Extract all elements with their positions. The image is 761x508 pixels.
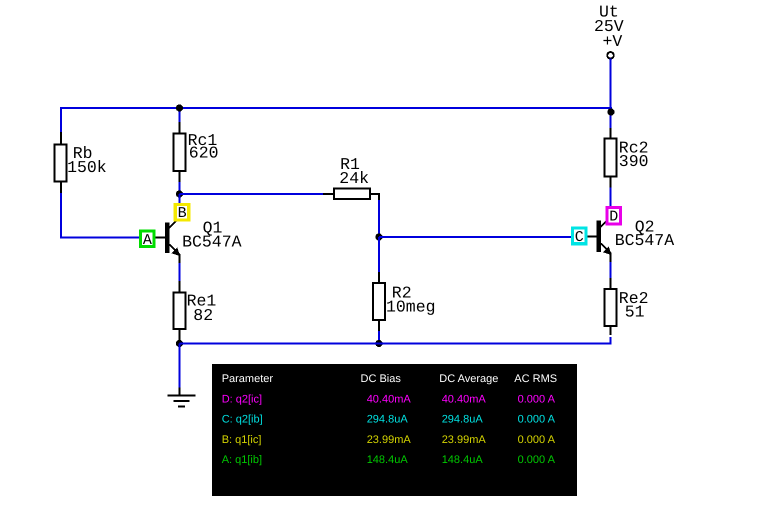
svg-text:294.8uA: 294.8uA	[367, 414, 409, 426]
svg-text:23.99mA: 23.99mA	[367, 434, 412, 446]
svg-text:C: C	[575, 229, 584, 246]
svg-text:0.000 A: 0.000 A	[518, 434, 556, 446]
svg-text:0.000 A: 0.000 A	[518, 454, 556, 466]
svg-text:AC RMS: AC RMS	[514, 373, 557, 385]
transistor Q2 emitter diagonal	[601, 244, 611, 254]
transistor Q1 emitter arrowhead	[171, 247, 180, 256]
junction dot top right T	[607, 108, 614, 115]
transistor Q2 base bar	[596, 221, 601, 253]
svg-text:294.8uA: 294.8uA	[442, 414, 484, 426]
resistor R1	[334, 189, 370, 200]
transistor Q2 emitter arrowhead	[603, 246, 612, 255]
ground bar 1	[168, 394, 196, 396]
junction dot Rc1 bottom node	[176, 190, 183, 197]
svg-text:D: D	[609, 209, 618, 226]
transistor Q1 base bar	[165, 223, 170, 254]
wire Rc1 bottom	[179, 182, 181, 195]
wire R1 down to mid node	[378, 200, 380, 238]
svg-text:B: q1[ic]: B: q1[ic]	[222, 434, 262, 446]
svg-text:DC Bias: DC Bias	[361, 373, 402, 385]
resistor R2	[373, 283, 385, 320]
svg-text:10meg: 10meg	[386, 298, 436, 317]
wire R2 bottom	[378, 331, 380, 345]
terminal Ut open circle	[607, 52, 614, 59]
wire Q2 emitter to Re2	[610, 262, 612, 279]
wire Re1 bottom	[179, 340, 181, 345]
transistor Q1 collector wire from node	[179, 194, 181, 205]
svg-text:D: q2[ic]: D: q2[ic]	[222, 394, 262, 406]
transistor Q1 emitter lead	[179, 254, 181, 264]
wire bottom rail	[180, 343, 612, 345]
resistor R2 lead bottom	[378, 320, 380, 332]
ground bar 3	[178, 406, 185, 408]
node A box	[141, 231, 155, 247]
wire node to R1	[180, 193, 325, 195]
svg-text:148.4uA: 148.4uA	[367, 454, 409, 466]
wire mid rail to C	[379, 236, 572, 238]
node C box	[572, 228, 586, 244]
node D box	[607, 207, 621, 224]
wire Rc2 to Q2 collector	[610, 188, 612, 208]
wire left rail upper	[60, 107, 62, 133]
ground bar 2	[174, 400, 190, 402]
svg-text:A: A	[143, 232, 152, 249]
junction dot Re1 bottom node	[176, 340, 183, 347]
svg-text:A: q1[ib]: A: q1[ib]	[222, 454, 262, 466]
svg-text:23.99mA: 23.99mA	[442, 434, 487, 446]
resistor Re1 lead bottom	[179, 329, 181, 341]
wire top rail	[60, 107, 612, 109]
wire R2 top	[378, 237, 380, 273]
resistor R1 lead left	[323, 193, 334, 195]
resistor Rc2	[605, 139, 617, 177]
node B box	[175, 205, 189, 221]
resistor Rc1	[174, 134, 186, 172]
wire Ut down	[610, 59, 612, 130]
transistor Q1 emitter diagonal	[169, 245, 179, 255]
resistor Re1 lead top	[179, 281, 181, 293]
wire left rail lower	[60, 193, 62, 239]
transistor Q1 collector diagonal	[169, 217, 180, 228]
svg-text:0.000 A: 0.000 A	[518, 394, 556, 406]
wire Q1 emitter to Re1	[179, 263, 181, 282]
svg-text:620: 620	[189, 144, 219, 163]
junction dot R2 bottom	[375, 340, 382, 347]
resistor Re2	[605, 289, 617, 326]
svg-text:+V: +V	[603, 32, 623, 51]
ground stub	[179, 388, 181, 396]
svg-text:BC547A: BC547A	[182, 233, 242, 252]
svg-text:C: q2[ib]: C: q2[ib]	[222, 414, 263, 426]
wire Rc1 top	[179, 108, 181, 123]
svg-text:150k: 150k	[67, 158, 107, 177]
svg-text:B: B	[178, 205, 187, 222]
resistor Re1	[174, 293, 186, 330]
svg-text:40.40mA: 40.40mA	[367, 394, 412, 406]
svg-text:24k: 24k	[339, 169, 369, 188]
svg-text:51: 51	[625, 303, 645, 322]
svg-text:DC Average: DC Average	[439, 373, 498, 385]
resistor Rc1 lead bottom	[179, 171, 181, 183]
svg-text:40.40mA: 40.40mA	[442, 394, 487, 406]
svg-text:0.000 A: 0.000 A	[518, 414, 556, 426]
transistor Q2 base lead	[587, 236, 597, 238]
junction dot top of Rc1	[176, 104, 183, 111]
wire Re2 bottom	[610, 337, 612, 345]
junction dot mid node	[375, 233, 382, 240]
resistor Rb lead top	[60, 132, 62, 145]
resistor R2 lead top	[378, 272, 380, 284]
wire ground drop	[179, 344, 181, 389]
measurement table background	[212, 364, 577, 496]
transistor Q1 base lead	[156, 237, 166, 239]
svg-text:390: 390	[619, 152, 649, 171]
resistor Re2 lead top	[610, 278, 612, 290]
svg-text:148.4uA: 148.4uA	[442, 454, 484, 466]
resistor Rb lead bottom	[60, 182, 62, 195]
resistor Rb	[55, 145, 67, 182]
svg-text:Parameter: Parameter	[222, 373, 274, 385]
resistor Rc2 lead top	[610, 128, 612, 139]
transistor Q2 collector diagonal	[601, 217, 612, 228]
transistor Q2 emitter lead	[610, 253, 612, 263]
svg-text:82: 82	[193, 306, 213, 325]
svg-text:BC547A: BC547A	[615, 231, 675, 250]
resistor Rc2 lead bottom	[610, 177, 612, 189]
wire to node A	[61, 237, 140, 239]
resistor Rc1 lead top	[179, 122, 181, 134]
resistor Re2 lead bottom	[610, 326, 612, 335]
resistor R1 lead right	[370, 194, 379, 201]
